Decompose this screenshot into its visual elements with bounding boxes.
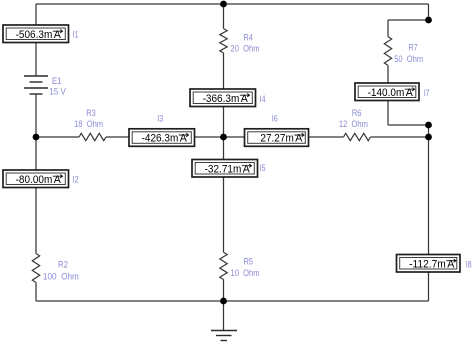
wire left column top (node to I1)	[35, 4, 37, 26]
wire I6 to R6	[309, 136, 344, 138]
svg-text:I1: I1	[73, 30, 79, 40]
junction right mid node	[425, 122, 432, 129]
wire R2 to bottom rail	[35, 283, 37, 302]
junction top center node	[220, 1, 227, 8]
wire left junction to R3	[36, 136, 79, 138]
svg-text:A: A	[406, 87, 414, 99]
wire I8 to bottom rail	[428, 272, 430, 301]
wire corner to right node	[388, 124, 429, 126]
wire I4 to center junction	[223, 107, 225, 138]
resistor R6	[344, 133, 371, 140]
wire I5 to R5	[223, 177, 225, 252]
svg-text:12 Ohm: 12 Ohm	[339, 119, 368, 129]
junction center node	[220, 134, 227, 141]
svg-text:50 Ohm: 50 Ohm	[394, 54, 423, 64]
ammeter I2	[3, 170, 69, 188]
svg-text:R3: R3	[86, 108, 96, 118]
wire I3 to center junction	[195, 136, 224, 138]
wire top horizontal	[36, 3, 429, 5]
wire center junction to I6	[224, 136, 245, 138]
ammeter I5	[192, 160, 258, 178]
junction bottom center node	[220, 298, 227, 305]
wire center junction to I5	[223, 137, 225, 160]
svg-text:-366.3m: -366.3m	[203, 93, 240, 105]
ammeter I7	[355, 83, 419, 101]
svg-text:100 Ohm: 100 Ohm	[43, 271, 79, 281]
svg-text:A: A	[243, 163, 251, 175]
svg-text:A: A	[180, 133, 188, 145]
svg-text:I2: I2	[73, 175, 79, 185]
wire to R7 top	[387, 20, 389, 37]
wire right junction to I8	[428, 137, 430, 255]
svg-text:A: A	[241, 93, 249, 105]
svg-text:10 Ohm: 10 Ohm	[231, 268, 260, 278]
svg-text:A: A	[54, 174, 62, 186]
svg-text:-80.00m: -80.00m	[16, 174, 53, 186]
ground	[211, 331, 237, 341]
junction right row node	[425, 134, 432, 141]
svg-text:27.27m: 27.27m	[260, 133, 294, 145]
svg-text:A: A	[295, 133, 303, 145]
svg-text:I6: I6	[272, 113, 278, 123]
wire I2 to R2	[35, 188, 37, 254]
resistor R4	[220, 29, 227, 53]
resistor R7	[384, 37, 391, 66]
battery E1	[24, 76, 48, 94]
svg-text:-32.71m: -32.71m	[205, 163, 242, 175]
svg-text:20 Ohm: 20 Ohm	[231, 43, 260, 53]
ammeter I4	[190, 89, 256, 107]
resistor R2	[32, 254, 39, 283]
svg-text:E1: E1	[52, 76, 62, 86]
wire left junction to I2	[35, 137, 37, 170]
svg-text:I7: I7	[424, 88, 430, 98]
resistor R5	[220, 252, 227, 279]
ammeter I8	[397, 255, 461, 273]
svg-text:R2: R2	[58, 260, 68, 270]
svg-text:15 V: 15 V	[49, 87, 66, 97]
svg-text:A: A	[54, 29, 62, 41]
wire R6 to right junction	[371, 136, 429, 138]
svg-text:R7: R7	[408, 42, 417, 52]
svg-text:-506.3m: -506.3m	[16, 29, 53, 41]
wire battery to left junction	[35, 94, 37, 137]
wire top rail to right top node	[428, 4, 430, 20]
junction right top node	[425, 17, 432, 24]
svg-text:-112.7m: -112.7m	[409, 258, 446, 270]
svg-text:18 Ohm: 18 Ohm	[74, 119, 103, 129]
svg-text:-426.3m: -426.3m	[142, 133, 179, 145]
wire ground stub	[223, 301, 225, 330]
svg-text:-140.0m: -140.0m	[368, 87, 405, 99]
wire right top node to R7 branch	[388, 19, 429, 21]
svg-text:I5: I5	[260, 163, 266, 173]
svg-text:R6: R6	[352, 108, 362, 118]
ammeter I3	[129, 129, 195, 147]
svg-text:R4: R4	[243, 33, 253, 43]
svg-text:A: A	[447, 258, 455, 270]
wire right node down to junction	[428, 125, 430, 137]
ammeter I6	[245, 129, 309, 147]
resistor R3	[79, 133, 106, 140]
svg-text:I3: I3	[157, 113, 163, 123]
ammeter I1	[3, 25, 69, 43]
svg-text:R5: R5	[244, 257, 254, 267]
wire R4 to I4	[223, 53, 225, 89]
wire bottom rail	[36, 300, 429, 302]
wire R7 to I7	[387, 65, 389, 83]
wire I1 to battery	[35, 43, 37, 77]
svg-text:I4: I4	[260, 94, 266, 104]
wire R5 to bottom junction	[223, 280, 225, 302]
wire R3 to I3	[106, 136, 129, 138]
wire top node to R4	[223, 4, 225, 29]
svg-text:I8: I8	[466, 259, 472, 269]
wire I7 to corner	[387, 101, 389, 126]
junction left node	[33, 134, 40, 141]
